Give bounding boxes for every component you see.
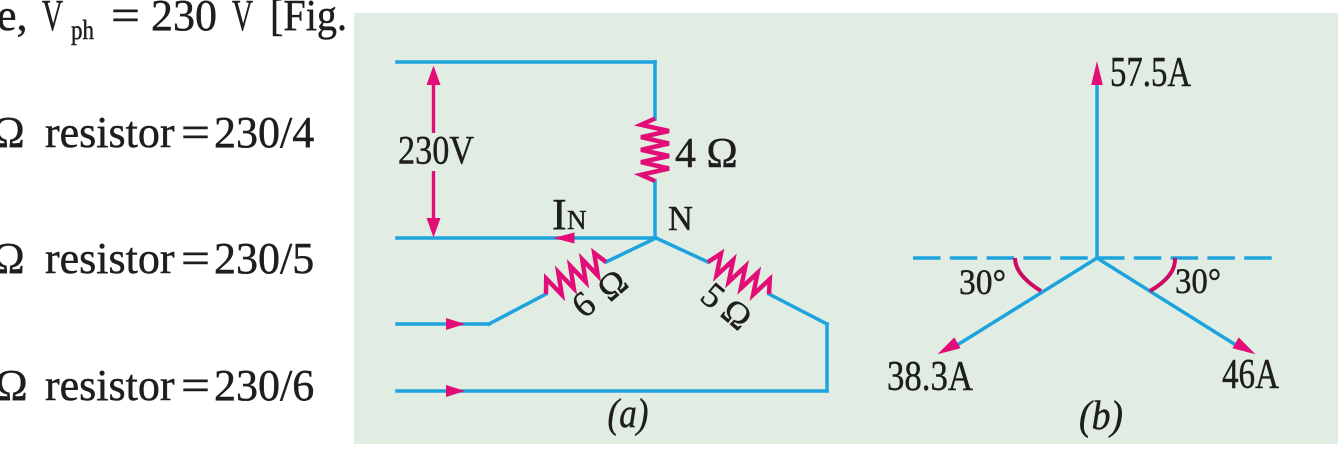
wire: second horizontal (neutral) into node N [397, 236, 655, 240]
dashed horizontal reference line [913, 256, 1276, 260]
svg-text:57.5A: 57.5A [1110, 50, 1192, 96]
label 6 ohm (rotated) [564, 261, 636, 325]
arrow on bottom wire (right pointing) [446, 385, 465, 397]
wire: diagonal from node N down to resistor R3 [656, 238, 708, 262]
svg-text:resistor: resistor [45, 361, 175, 410]
wire: diagonal from resistor R3 to right bend [769, 294, 827, 324]
svg-text:N: N [668, 200, 693, 238]
wire: diagonal from mid-left bend up to resistor R2 [489, 294, 546, 324]
svg-text:230: 230 [151, 0, 217, 40]
wire: right vertical from top wire to resistor R1 top [653, 62, 657, 119]
svg-text:N: N [567, 205, 587, 235]
resistor R3 5 ohm (diagonal zigzag) [708, 254, 770, 295]
svg-text:Ω: Ω [0, 234, 25, 283]
phasor right diagonal 46A [1097, 258, 1239, 347]
svg-text:(a): (a) [608, 390, 649, 436]
svg-text:230/6: 230/6 [214, 361, 314, 410]
svg-text:[Fig.: [Fig. [270, 0, 347, 40]
svg-text:I: I [552, 190, 567, 239]
resistor R1 4 ohm (vertical zigzag) [641, 119, 669, 182]
wire: from resistor R1 bottom to node N [653, 181, 657, 238]
arrowhead up 57.5A [1091, 61, 1103, 85]
green figure panel [354, 13, 1338, 444]
svg-text:resistor: resistor [45, 234, 175, 283]
angle arc left 30deg [1015, 258, 1041, 291]
svg-text:e,: e, [0, 0, 28, 40]
wire: bottom horizontal [397, 389, 827, 393]
svg-text:30°: 30° [1175, 261, 1221, 301]
svg-text:230/5: 230/5 [214, 234, 314, 283]
resistor R2 6 ohm (diagonal zigzag) [546, 253, 606, 295]
svg-text:V: V [42, 0, 63, 40]
left text line 2: ohm resistor = 230/4 [0, 108, 314, 157]
svg-text:4 Ω: 4 Ω [675, 131, 738, 177]
svg-text:=: = [111, 0, 140, 40]
230V dimension arrow (double headed, magenta) [427, 66, 441, 238]
svg-text:=: = [181, 108, 210, 157]
label 5 ohm (rotated) [693, 274, 759, 338]
svg-text:46A: 46A [1222, 352, 1280, 398]
svg-text:30°: 30° [959, 262, 1006, 302]
svg-text:(b): (b) [1079, 392, 1123, 438]
left text line 1: e, Vph = 230 V [Fig. [0, 0, 347, 45]
arrow on mid-left wire (right pointing) [446, 318, 465, 330]
svg-text:resistor: resistor [45, 108, 175, 157]
wire: right vertical down [825, 324, 829, 391]
left text line 4: ohm resistor = 230/6 [0, 361, 314, 410]
svg-text:Ω: Ω [0, 108, 25, 157]
left text line 3: ohm resistor = 230/5 [0, 234, 314, 283]
wire: diagonal from resistor R2 to node N [606, 238, 656, 262]
wire: mid-left horizontal [397, 322, 489, 326]
svg-text:38.3A: 38.3A [887, 354, 974, 400]
svg-text:=: = [181, 234, 210, 283]
phasor left diagonal 38.3A [954, 258, 1097, 347]
phasor vertical line 57.5A [1095, 80, 1099, 258]
svg-text:V: V [232, 0, 253, 40]
svg-text:Ω: Ω [0, 361, 28, 410]
angle arc right 30deg [1150, 258, 1175, 291]
arrowhead 46A [1233, 337, 1256, 354]
wire: top horizontal [397, 60, 655, 64]
svg-text:230/4: 230/4 [214, 108, 314, 157]
arrowhead 38.3A [938, 337, 961, 354]
current arrow I_N (left pointing) [553, 233, 575, 244]
svg-text:230V: 230V [398, 128, 474, 173]
svg-text:ph: ph [71, 15, 94, 45]
svg-text:=: = [181, 361, 210, 410]
